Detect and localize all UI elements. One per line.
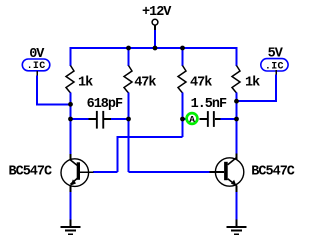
- svg-text:1k: 1k: [245, 75, 260, 90]
- junction: 0V tap on left column: [68, 102, 73, 107]
- wire: +12V supply bus (horizontal): [71, 47, 237, 49]
- wire: C2 right plate to Q2 collector column: [221, 118, 237, 120]
- svg-text:47k: 47k: [134, 75, 156, 90]
- wire: jog down to Q1 base row: [117, 136, 119, 172]
- ground (right): [227, 220, 247, 235]
- wire: node N3 stub to node A marker: [183, 118, 188, 120]
- junction: C1 right / R2 bottom (node N2): [126, 117, 131, 122]
- svg-text:.IC: .IC: [27, 61, 46, 72]
- wire: from bus to R2: [128, 47, 130, 66]
- wire: +12V terminal drop to bus: [154, 30, 156, 48]
- junction: C1 left / Q1 collector node: [68, 117, 73, 122]
- wire: Q1 collector node to C1 left plate: [71, 118, 89, 120]
- transistor Q2 BC547C (right NPN): [210, 154, 244, 193]
- svg-text:BC547C: BC547C: [9, 165, 53, 180]
- wire: left .IC badge down and right to node: [37, 76, 71, 105]
- wire: left column from bus to R1: [70, 47, 72, 66]
- resistor R1 1k (left collector load): [66, 66, 74, 94]
- junction: C2 right / Q2 collector node: [234, 117, 239, 122]
- svg-text:A: A: [189, 114, 195, 125]
- node A marker (green ring): [187, 113, 198, 124]
- terminal +12V (open circle): [152, 19, 158, 25]
- wire: to Q1 base: [93, 171, 118, 173]
- resistor R3 47k (right): [178, 66, 186, 94]
- wire: bus corner to R4: [236, 47, 238, 66]
- wire: right column R4 bottom to Q2 collector: [236, 93, 238, 155]
- wire: R3 bottom through node A junction down to jog: [182, 93, 184, 138]
- junction: R3 bottom / node A (node N3): [180, 117, 185, 122]
- pin: stub under right .IC badge: [275, 70, 277, 75]
- pin: stub under left .IC badge: [36, 71, 38, 76]
- svg-text:47k: 47k: [190, 75, 212, 90]
- .IC stadium badge (left): [22, 59, 50, 71]
- wire: C1 right plate to node N2: [111, 118, 129, 120]
- svg-text:1k: 1k: [78, 75, 93, 90]
- junction: 5V tap on right column: [234, 99, 239, 104]
- svg-text:BC547C: BC547C: [251, 165, 295, 180]
- capacitor C1 618pF: [89, 111, 112, 129]
- transistor Q1 BC547C (left, mirrored NPN): [61, 154, 93, 193]
- svg-text:.IC: .IC: [265, 61, 284, 72]
- svg-text:618pF: 618pF: [87, 97, 123, 112]
- wire: R2 bottom down to node N2 and to Q2 base row: [128, 93, 130, 173]
- wire: Q1 emitter down: [70, 192, 72, 220]
- svg-text:1.5nF: 1.5nF: [191, 97, 227, 112]
- pin: +12V terminal stub: [154, 25, 156, 30]
- junction: bus / +12V: [153, 46, 158, 51]
- wire: left column R1 bottom to Q1 collector: [70, 93, 72, 155]
- resistor R4 1k (right collector load): [232, 66, 240, 94]
- junction: bus / R3: [180, 46, 185, 51]
- wire: from bus to R3: [182, 47, 184, 66]
- svg-text:+12V: +12V: [142, 5, 172, 20]
- wire: N2 across to Q2 base: [129, 171, 211, 173]
- wire: Q2 emitter down: [236, 192, 238, 220]
- .IC stadium badge (right): [261, 59, 288, 71]
- resistor R2 47k (left): [124, 66, 132, 94]
- junction: bus / R2: [126, 46, 131, 51]
- wire: jog across left at y=137: [118, 136, 183, 138]
- capacitor C2 1.5nF: [200, 111, 221, 127]
- wire: right .IC badge down and left to node: [237, 75, 277, 102]
- ground (left): [61, 220, 81, 235]
